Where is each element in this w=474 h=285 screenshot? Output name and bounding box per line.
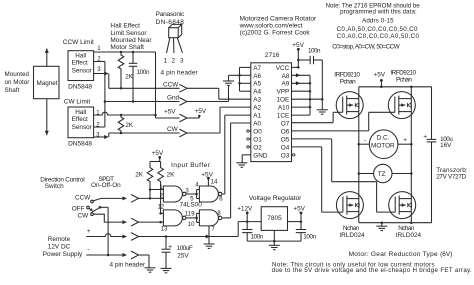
svg-text:10: 10 <box>188 222 195 228</box>
svg-text:1: 1 <box>164 58 168 65</box>
svg-text:Hall Effect: Hall Effect <box>110 23 140 30</box>
svg-text:CCW Limit: CCW Limit <box>63 39 94 46</box>
svg-text:A5: A5 <box>253 81 261 88</box>
svg-text:Addrs 0-15: Addrs 0-15 <box>362 17 394 24</box>
svg-text:Hall: Hall <box>75 109 86 116</box>
svg-text:Pchan: Pchan <box>340 78 356 85</box>
svg-text:O5: O5 <box>281 136 290 143</box>
svg-text:7805: 7805 <box>267 215 282 222</box>
svg-text:Hall: Hall <box>75 53 86 60</box>
svg-text:2: 2 <box>172 58 176 65</box>
svg-text:100n: 100n <box>308 48 321 55</box>
svg-text:Motorized Camera Rotator: Motorized Camera Rotator <box>240 15 317 22</box>
svg-text:+: + <box>168 243 172 250</box>
svg-text:+5V: +5V <box>195 108 207 115</box>
svg-text:16V: 16V <box>440 142 452 149</box>
svg-text:A3: A3 <box>253 97 261 104</box>
svg-text:IRFD9210: IRFD9210 <box>390 69 416 76</box>
svg-text:14: 14 <box>211 180 218 186</box>
svg-text:DN5848: DN5848 <box>68 84 92 91</box>
svg-text:+: + <box>87 228 91 235</box>
svg-text:Nchan: Nchan <box>343 225 360 232</box>
svg-text:A4: A4 <box>253 89 261 96</box>
svg-text:CCW: CCW <box>163 82 179 89</box>
svg-text:A0: A0 <box>253 120 261 127</box>
svg-text:4 pin header: 4 pin header <box>110 261 146 268</box>
svg-text:A1: A1 <box>253 113 261 120</box>
svg-text:2K: 2K <box>135 171 144 178</box>
svg-text:MOTOR: MOTOR <box>371 142 395 149</box>
svg-text:Magnet: Magnet <box>37 80 58 87</box>
svg-text:4 pin header: 4 pin header <box>161 69 199 76</box>
svg-text:Sensor: Sensor <box>72 68 93 75</box>
svg-text:O2: O2 <box>253 144 262 151</box>
svg-text:A7: A7 <box>253 65 261 72</box>
svg-text:Mounted: Mounted <box>5 71 30 78</box>
svg-text:+5V: +5V <box>374 71 386 78</box>
svg-text:CCW: CCW <box>75 194 91 201</box>
svg-text:C0,A0,C0,C0,C0,A0,50,C0: C0,A0,C0,C0,C0,A0,50,C0 <box>337 33 420 40</box>
svg-text:Sensor: Sensor <box>72 124 93 131</box>
svg-text:Effect: Effect <box>72 60 88 67</box>
svg-text:Panasonic: Panasonic <box>156 11 185 18</box>
svg-text:A10: A10 <box>278 105 290 112</box>
svg-text:25V: 25V <box>177 252 189 259</box>
svg-text:DN-6848: DN-6848 <box>156 19 185 26</box>
svg-text:100uF: 100uF <box>177 245 193 252</box>
svg-text:(6V): (6V) <box>440 251 452 258</box>
svg-text:A6: A6 <box>253 73 261 80</box>
svg-text:-: - <box>364 137 366 144</box>
svg-text:IRLD024: IRLD024 <box>396 232 422 239</box>
svg-text:12: 12 <box>158 205 165 211</box>
svg-text:programmed with this data:: programmed with this data: <box>340 8 417 15</box>
svg-text:on Motor: on Motor <box>5 79 30 86</box>
svg-text:O4: O4 <box>281 144 290 151</box>
svg-text:+5V: +5V <box>152 150 164 157</box>
svg-text:Pchan: Pchan <box>396 76 412 83</box>
svg-text:VCC: VCC <box>276 65 290 72</box>
svg-text:Gnd: Gnd <box>167 95 180 102</box>
svg-text:O7: O7 <box>281 120 290 127</box>
svg-text:On-Off-On: On-Off-On <box>91 182 121 189</box>
svg-text:+5V: +5V <box>164 109 176 116</box>
svg-text:2K: 2K <box>125 122 134 129</box>
svg-text:Power Supply: Power Supply <box>43 251 83 258</box>
svg-text:+5V: +5V <box>293 205 305 212</box>
svg-text:+: + <box>403 137 407 144</box>
svg-text:D.C.: D.C. <box>377 135 390 142</box>
svg-text:(c)2002 G. Forrest Cook: (c)2002 G. Forrest Cook <box>240 29 311 36</box>
svg-text:2716: 2716 <box>265 52 280 59</box>
svg-text:C0=stop, A0=CW, 50=CCW: C0=stop, A0=CW, 50=CCW <box>332 43 400 50</box>
svg-text:TZ: TZ <box>378 171 386 178</box>
svg-text:O0: O0 <box>253 128 262 135</box>
svg-text:Shaft: Shaft <box>5 87 20 94</box>
svg-text:+5V: +5V <box>201 171 213 178</box>
svg-text:100n: 100n <box>137 69 150 76</box>
svg-text:+: + <box>423 133 427 140</box>
svg-text:1OE: 1OE <box>277 97 290 104</box>
svg-text:Input Buffer: Input Buffer <box>171 162 211 169</box>
svg-text:Motor: Gear Reduction Type: Motor: Gear Reduction Type <box>349 251 438 258</box>
svg-text:Effect: Effect <box>72 116 88 123</box>
svg-text:A2: A2 <box>253 105 261 112</box>
svg-text:100n: 100n <box>303 234 316 241</box>
svg-text:Limit Sensor: Limit Sensor <box>110 30 147 37</box>
svg-text:www.solorb.com/elect: www.solorb.com/elect <box>239 22 303 29</box>
svg-text:Remote: Remote <box>48 236 71 243</box>
svg-text:Nchan: Nchan <box>398 225 415 232</box>
svg-text:IRLD024: IRLD024 <box>339 232 365 239</box>
svg-text:VPP: VPP <box>277 89 290 96</box>
svg-text:GND: GND <box>253 152 268 159</box>
svg-text:+5V: +5V <box>292 42 304 49</box>
svg-text:O1: O1 <box>253 136 262 143</box>
svg-text:Mounted Near: Mounted Near <box>110 37 152 44</box>
svg-text:CW: CW <box>167 126 179 133</box>
svg-text:IRFD9210: IRFD9210 <box>334 71 360 78</box>
svg-text:Motor Shaft: Motor Shaft <box>110 44 144 51</box>
svg-text:Voltage Regulator: Voltage Regulator <box>249 195 302 202</box>
svg-text:A9: A9 <box>281 81 289 88</box>
svg-text:O3: O3 <box>281 152 290 159</box>
svg-text:12V DC: 12V DC <box>48 244 71 251</box>
svg-text:13: 13 <box>161 227 168 233</box>
svg-text:3: 3 <box>180 58 184 65</box>
svg-text:A8: A8 <box>281 73 289 80</box>
svg-text:2K: 2K <box>167 171 176 178</box>
svg-text:CW: CW <box>78 212 90 219</box>
svg-text:C0,A0,50,C0,C0,C0,50,C0: C0,A0,50,C0,C0,C0,50,C0 <box>337 26 418 33</box>
svg-text:due to the 5V drive voltage an: due to the 5V drive voltage and the el-c… <box>272 267 473 274</box>
svg-text:O6: O6 <box>281 128 290 135</box>
svg-text:27V V727D: 27V V727D <box>436 173 466 180</box>
svg-text:+12V: +12V <box>237 205 253 212</box>
svg-text:CW Limit: CW Limit <box>64 99 91 106</box>
svg-text:DN5848: DN5848 <box>68 140 92 147</box>
svg-text:Switch: Switch <box>45 183 64 190</box>
svg-text:100n: 100n <box>251 234 264 241</box>
svg-text:1CE: 1CE <box>277 113 289 120</box>
